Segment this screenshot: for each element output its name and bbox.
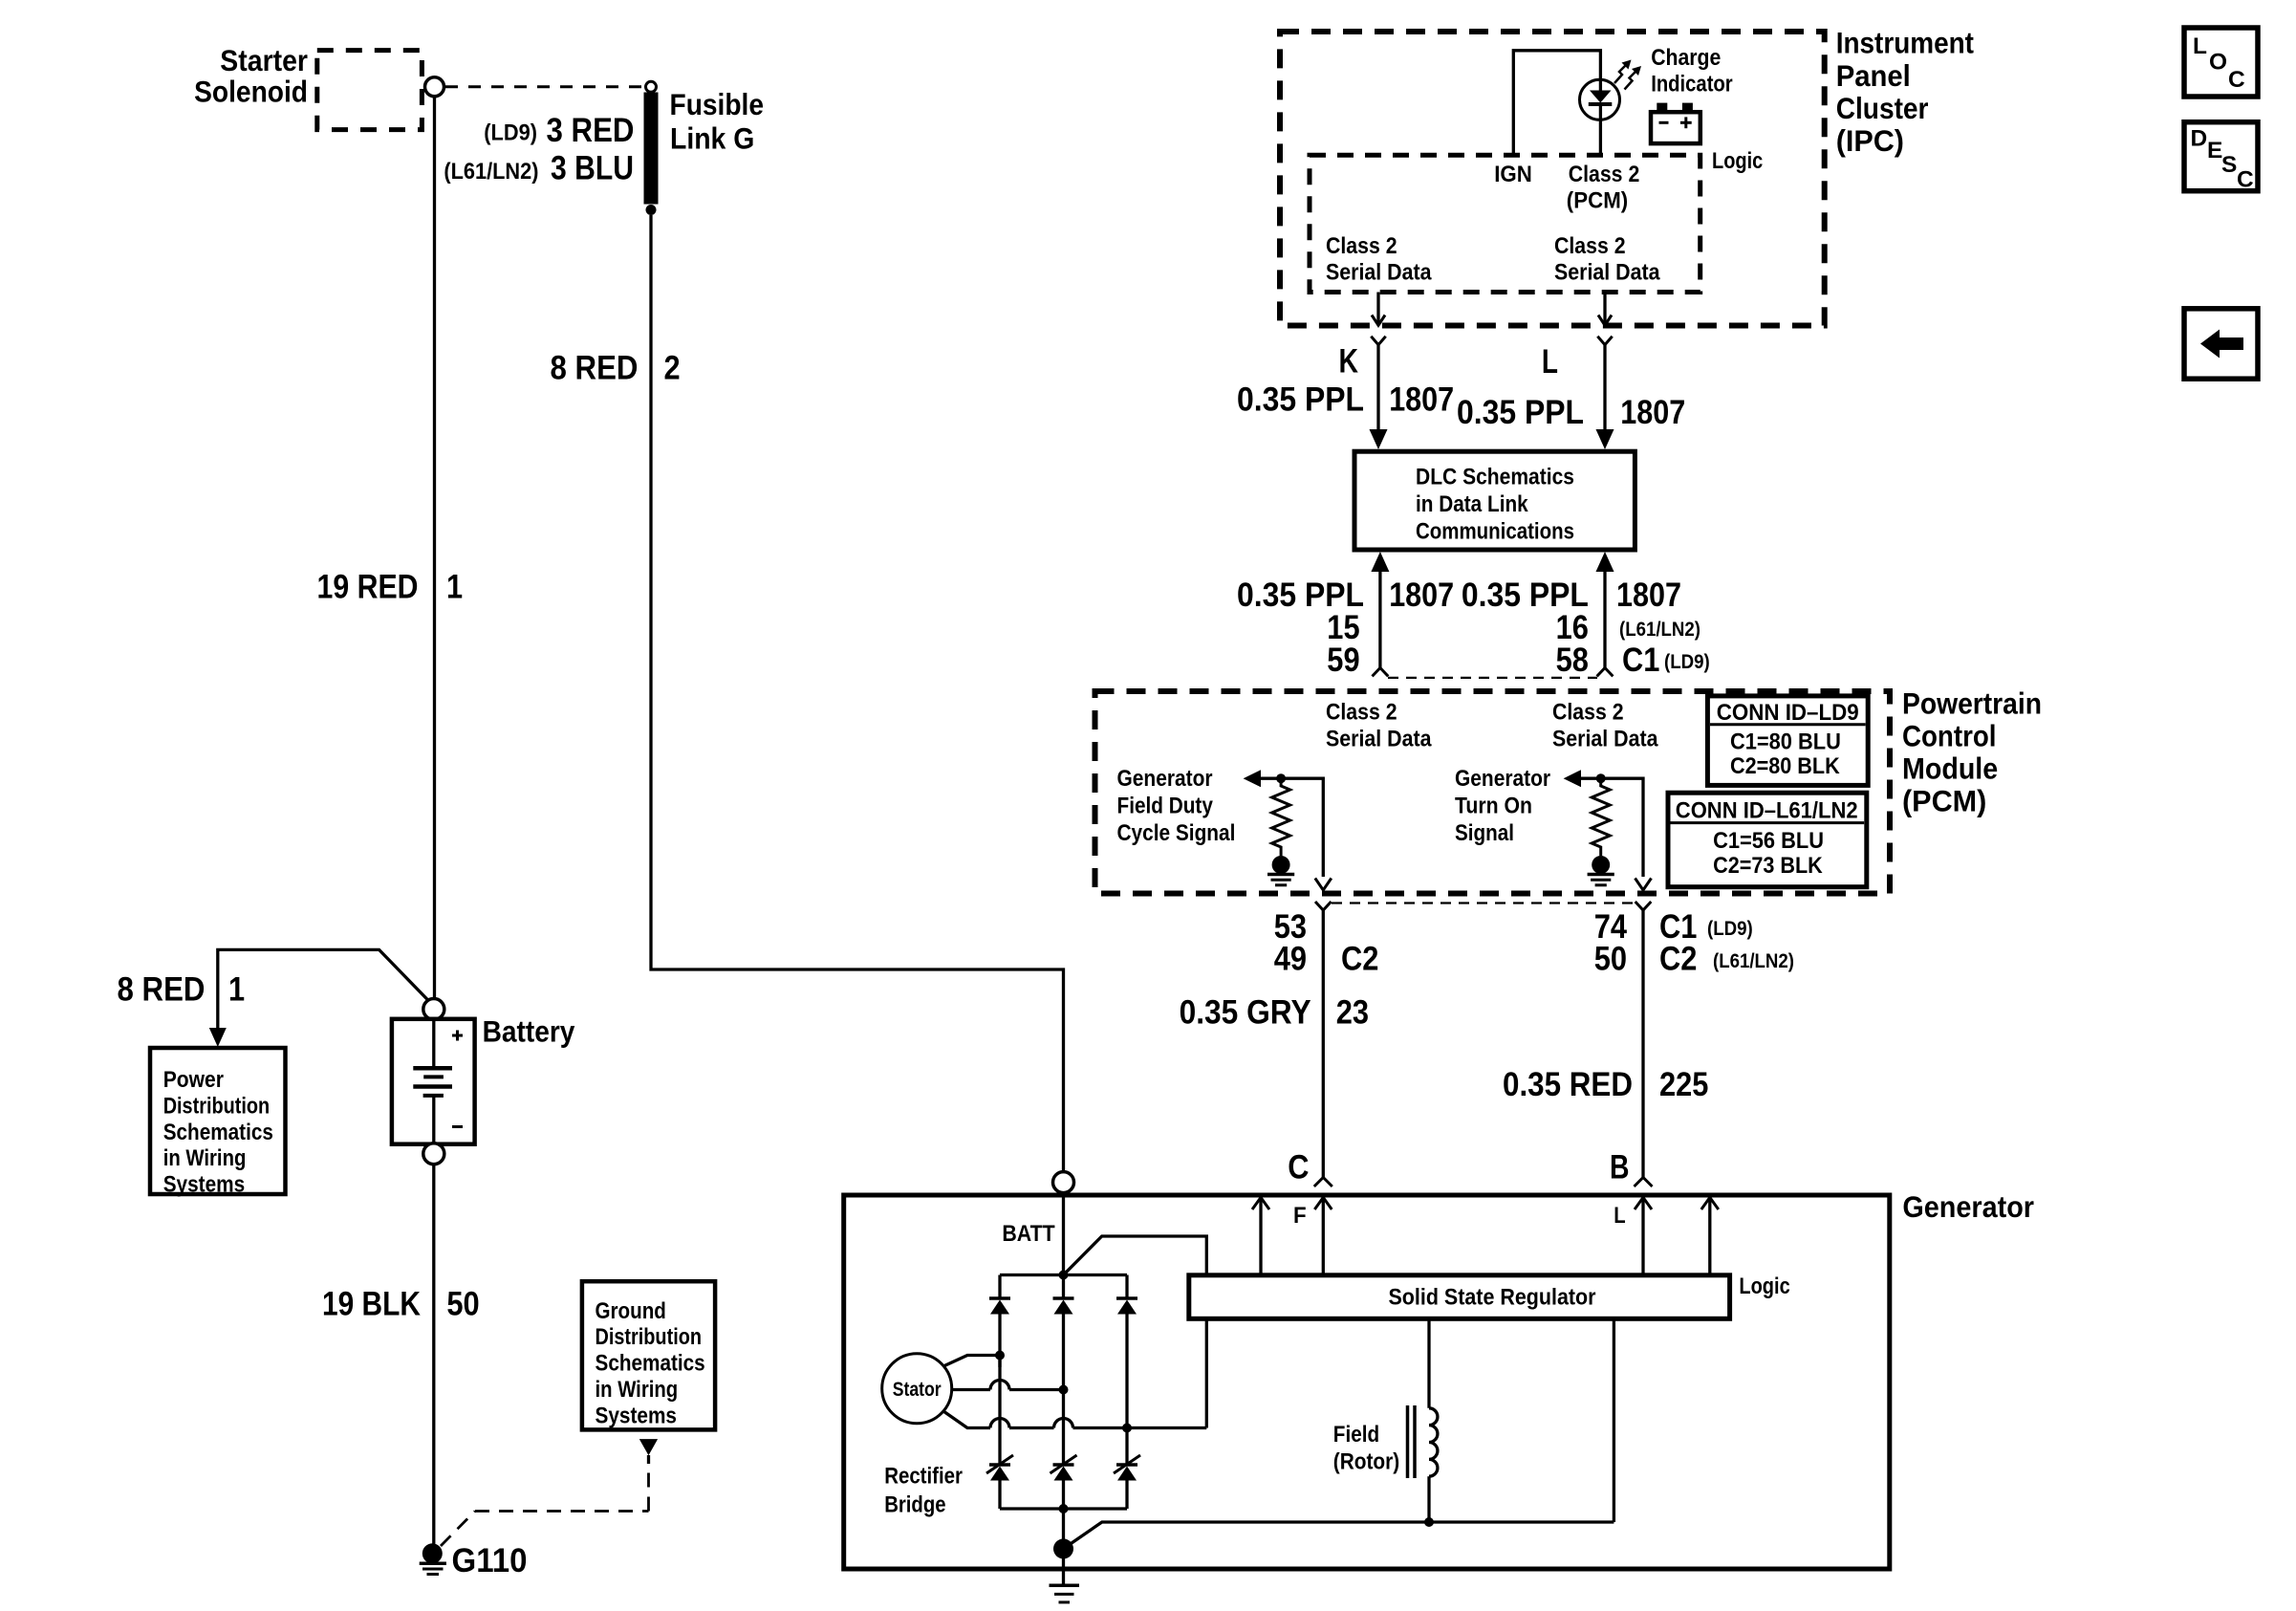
svg-text:Rectifier: Rectifier <box>884 1464 963 1490</box>
arrow regulator F terminal <box>1252 1198 1269 1275</box>
svg-text:3 BLU: 3 BLU <box>551 150 634 187</box>
svg-text:Logic: Logic <box>1739 1274 1789 1299</box>
svg-text:0.35 PPL: 0.35 PPL <box>1237 381 1364 419</box>
DLC schematics box <box>1354 451 1635 550</box>
wire serial data (PCM 15/59 to DLC) <box>1371 552 1389 676</box>
label 0.35 PPL 1807 (left lower) <box>1237 577 1454 614</box>
svg-text:50: 50 <box>446 1286 479 1323</box>
svg-text:Starter: Starter <box>220 43 308 77</box>
node bottom bus junction <box>1059 1504 1069 1513</box>
svg-text:Cycle Signal: Cycle Signal <box>1117 820 1236 846</box>
wire (dashed) G110 to ground distribution <box>441 1439 658 1546</box>
svg-text:8 RED: 8 RED <box>551 350 639 387</box>
svg-text:L: L <box>1542 343 1558 381</box>
svg-text:(L61/LN2): (L61/LN2) <box>444 159 538 185</box>
svg-text:(LD9): (LD9) <box>1664 651 1710 673</box>
wire bottom bus to generator ground <box>1062 1509 1065 1585</box>
svg-text:Class 2: Class 2 <box>1554 233 1626 259</box>
field rotor coil <box>1408 1318 1438 1527</box>
svg-text:(Rotor): (Rotor) <box>1333 1449 1399 1475</box>
wire branch 8 RED circuit 1 (to power distribution) <box>218 949 435 1029</box>
ground (turn on) <box>1588 856 1614 885</box>
wire stator phase 3 <box>943 1411 1206 1433</box>
svg-text:C2=73 BLK: C2=73 BLK <box>1713 853 1823 879</box>
svg-text:Class 2: Class 2 <box>1326 699 1397 725</box>
label Class 2 Serial Data (PCM left) <box>1326 699 1432 751</box>
diode (rectifier top 2) <box>1053 1275 1074 1465</box>
svg-text:Schematics: Schematics <box>163 1120 273 1145</box>
label Field (Rotor) <box>1333 1422 1399 1475</box>
svg-text:Systems: Systems <box>163 1172 246 1198</box>
svg-text:Serial Data: Serial Data <box>1554 260 1660 286</box>
svg-text:2: 2 <box>664 350 681 387</box>
svg-text:B: B <box>1610 1149 1630 1186</box>
battery <box>392 999 575 1165</box>
wire ground to field return <box>1064 1522 1614 1549</box>
label (L61/LN2) 3 BLU <box>444 150 634 187</box>
fusible link G <box>644 81 765 215</box>
svg-text:IGN: IGN <box>1494 162 1532 187</box>
svg-text:Solenoid: Solenoid <box>194 75 308 109</box>
wire K serial data (IPC to DLC) <box>1370 293 1388 450</box>
svg-text:8 RED: 8 RED <box>118 971 206 1009</box>
svg-text:Signal: Signal <box>1455 820 1514 846</box>
svg-text:Stator: Stator <box>893 1379 942 1401</box>
wire regulator to field return <box>1613 1318 1615 1522</box>
svg-text:(PCM): (PCM) <box>1567 188 1628 214</box>
svg-text:Panel: Panel <box>1836 58 1911 93</box>
arrow regulator L terminal <box>1701 1198 1719 1275</box>
svg-text:Class 2: Class 2 <box>1326 233 1397 259</box>
svg-text:C2=80 BLK: C2=80 BLK <box>1730 753 1840 779</box>
DESC box <box>2184 122 2258 193</box>
svg-text:F: F <box>1293 1203 1307 1229</box>
svg-text:Generator: Generator <box>1455 766 1550 792</box>
svg-text:1807: 1807 <box>1620 394 1685 431</box>
svg-text:225: 225 <box>1659 1066 1708 1103</box>
svg-text:E: E <box>2207 138 2222 163</box>
wire 19 RED circuit 1 (solenoid to battery) <box>433 97 436 999</box>
wire IGN <box>1513 51 1600 154</box>
svg-text:C: C <box>2228 67 2245 93</box>
label Charge Indicator <box>1651 45 1733 98</box>
label pins 15 / 16 (L61/LN2) <box>1327 609 1700 646</box>
svg-text:G110: G110 <box>452 1542 528 1579</box>
solid state regulator box <box>1189 1275 1730 1319</box>
svg-text:Distribution: Distribution <box>163 1093 271 1119</box>
label Generator Turn On Signal <box>1455 766 1550 846</box>
node BATT junction <box>1059 1271 1069 1280</box>
wire stator phase 2 <box>952 1381 1069 1395</box>
CONN ID-LD9 box <box>1707 696 1868 786</box>
wire serial data (PCM 16/58 to DLC) <box>1596 552 1614 676</box>
svg-text:Communications: Communications <box>1416 519 1574 545</box>
rectifier bridge bottom bus <box>1000 1507 1127 1510</box>
svg-text:Charge: Charge <box>1651 45 1721 71</box>
wire 8 RED circuit 2 (fusible link to generator BATT) <box>651 215 1064 1172</box>
instrument panel cluster (IPC) box <box>1280 26 1974 326</box>
svg-text:Ground: Ground <box>596 1298 666 1324</box>
powertrain control module (PCM) box <box>1095 686 2043 894</box>
CONN ID-L61/LN2 box <box>1668 793 1867 887</box>
label Generator Field Duty Cycle Signal <box>1117 766 1236 846</box>
ground (generator case) <box>1050 1585 1080 1602</box>
label Class 2 Serial Data (PCM right) <box>1552 699 1658 751</box>
svg-text:Control: Control <box>1902 719 1997 753</box>
label Class 2 Serial Data (IPC left) <box>1326 233 1432 286</box>
resistor (turn on pull-up) <box>1592 773 1610 856</box>
svg-text:(IPC): (IPC) <box>1836 123 1904 158</box>
node: generator BATT terminal <box>1053 1172 1074 1193</box>
svg-text:1807: 1807 <box>1389 381 1454 419</box>
svg-text:3 RED: 3 RED <box>547 112 635 149</box>
label pins 53 / 74 C1 (LD9) <box>1274 908 1753 946</box>
svg-text:59: 59 <box>1327 642 1359 679</box>
svg-text:1: 1 <box>228 971 245 1009</box>
indicator light rays <box>1614 60 1641 90</box>
diode (rectifier top 3) <box>1116 1275 1137 1465</box>
svg-text:Field: Field <box>1333 1422 1379 1448</box>
svg-text:Link G: Link G <box>670 121 754 156</box>
svg-text:C2: C2 <box>1341 941 1378 978</box>
wire (dashed) solenoid to fusible link <box>445 85 641 88</box>
svg-text:K: K <box>1339 343 1359 381</box>
svg-text:Battery: Battery <box>483 1014 575 1049</box>
svg-text:(L61/LN2): (L61/LN2) <box>1713 950 1794 972</box>
svg-text:Serial Data: Serial Data <box>1326 260 1432 286</box>
svg-text:CONN ID–L61/LN2: CONN ID–L61/LN2 <box>1676 798 1858 824</box>
wire generator field duty cycle signal (PCM internal) <box>1244 770 1332 890</box>
svg-text:Power: Power <box>163 1067 225 1093</box>
wire L serial data (IPC to DLC) <box>1596 293 1614 450</box>
svg-text:Module: Module <box>1902 751 1998 786</box>
wire BATT node loop <box>1064 1236 1207 1428</box>
IPC battery telltale icon <box>1651 103 1700 144</box>
diode avalanche (rectifier bottom 3) <box>1114 1455 1140 1509</box>
label 0.35 RED 225 <box>1503 1066 1708 1103</box>
svg-text:Logic: Logic <box>1712 148 1763 174</box>
svg-text:C: C <box>1288 1149 1309 1186</box>
node: starter solenoid terminal <box>425 77 444 97</box>
label 8 RED 2 <box>551 350 681 387</box>
label (LD9) 3 RED <box>484 112 634 149</box>
svg-text:C: C <box>2237 167 2254 193</box>
svg-text:23: 23 <box>1336 994 1369 1032</box>
wire 0.35 RED circuit 225 (PCM C1/C2 to generator L) <box>1635 902 1653 1186</box>
ground (field duty) <box>1267 856 1294 885</box>
label 0.35 PPL 1807 (L) <box>1457 394 1685 431</box>
svg-text:Class 2: Class 2 <box>1569 162 1640 187</box>
svg-text:19 BLK: 19 BLK <box>322 1286 421 1323</box>
svg-text:Serial Data: Serial Data <box>1552 727 1658 752</box>
svg-text:O: O <box>2209 50 2227 76</box>
svg-text:0.35 PPL: 0.35 PPL <box>1457 394 1584 431</box>
svg-text:49: 49 <box>1274 941 1307 978</box>
stator <box>882 1354 952 1424</box>
wire 0.35 GRY circuit 23 (PCM C2 to generator F) <box>1314 902 1332 1186</box>
svg-text:(L61/LN2): (L61/LN2) <box>1619 619 1700 641</box>
LOC box <box>2184 28 2258 97</box>
svg-text:C2: C2 <box>1659 941 1697 978</box>
diode (rectifier top 1) <box>989 1275 1010 1465</box>
svg-text:C1: C1 <box>1622 642 1659 679</box>
svg-text:0.35 GRY: 0.35 GRY <box>1180 994 1311 1032</box>
rectifier bridge top bus <box>1000 1274 1127 1276</box>
node generator ground <box>1053 1538 1073 1558</box>
svg-text:in Wiring: in Wiring <box>163 1145 247 1171</box>
arrow regulator F input <box>1314 1198 1332 1275</box>
svg-text:58: 58 <box>1556 642 1589 679</box>
connector line (dashed) PCM top <box>1388 677 1597 679</box>
label 0.35 PPL 1807 (K) <box>1237 381 1454 419</box>
svg-text:BATT: BATT <box>1002 1221 1054 1247</box>
wire BATT terminal to rectifier bus <box>1062 1193 1065 1275</box>
svg-text:Systems: Systems <box>596 1403 678 1428</box>
svg-text:1807: 1807 <box>1389 577 1454 614</box>
svg-text:Generator: Generator <box>1117 766 1213 792</box>
svg-text:in Data Link: in Data Link <box>1416 491 1528 517</box>
starter solenoid <box>194 43 422 130</box>
label Class 2 Serial Data (IPC right) <box>1554 233 1660 286</box>
svg-text:50: 50 <box>1594 941 1627 978</box>
svg-text:CONN ID–LD9: CONN ID–LD9 <box>1717 700 1859 726</box>
svg-text:Instrument: Instrument <box>1836 26 1975 60</box>
arrow regulator L input <box>1635 1198 1652 1275</box>
label 19 BLK 50 <box>322 1286 480 1323</box>
svg-text:(PCM): (PCM) <box>1902 784 1986 818</box>
svg-text:L: L <box>2193 33 2207 59</box>
back arrow box <box>2184 309 2258 379</box>
diode avalanche (rectifier bottom 1) <box>986 1455 1013 1509</box>
svg-text:Fusible: Fusible <box>670 87 765 121</box>
svg-text:1: 1 <box>446 569 463 606</box>
svg-text:0.35 RED: 0.35 RED <box>1503 1066 1633 1103</box>
svg-text:Bridge: Bridge <box>884 1492 945 1518</box>
svg-text:C1=80 BLU: C1=80 BLU <box>1730 729 1841 755</box>
label Class 2 (PCM) <box>1567 162 1639 214</box>
svg-text:D: D <box>2191 125 2208 151</box>
power distribution schematics box <box>150 1048 286 1198</box>
resistor (field duty pull-up) <box>1272 773 1290 856</box>
label 0.35 GRY 23 <box>1180 994 1369 1032</box>
wire generator turn on signal (PCM internal) <box>1564 770 1652 890</box>
label pins 49 C2 / 50 C2 (L61/LN2) <box>1274 941 1794 978</box>
svg-text:Cluster: Cluster <box>1836 91 1929 125</box>
svg-text:Class 2: Class 2 <box>1552 699 1624 725</box>
svg-text:L: L <box>1614 1203 1625 1229</box>
svg-text:C1=56 BLU: C1=56 BLU <box>1713 828 1824 854</box>
svg-text:Powertrain: Powertrain <box>1902 686 2042 721</box>
svg-text:DLC Schematics: DLC Schematics <box>1416 465 1574 490</box>
label pins 59 / 58 C1 (LD9) <box>1327 642 1710 679</box>
wire 19 BLK circuit 50 (battery to G110) <box>432 1165 435 1545</box>
svg-text:Field Duty: Field Duty <box>1117 794 1214 819</box>
svg-text:(LD9): (LD9) <box>484 120 537 146</box>
generator box <box>844 1195 1890 1569</box>
svg-text:1807: 1807 <box>1616 577 1681 614</box>
diode avalanche (rectifier bottom 2) <box>1051 1455 1077 1509</box>
svg-text:Serial Data: Serial Data <box>1326 727 1432 752</box>
svg-text:in Wiring: in Wiring <box>596 1377 679 1403</box>
svg-text:Solid State Regulator: Solid State Regulator <box>1389 1285 1596 1311</box>
svg-text:S: S <box>2221 152 2237 178</box>
wire stator phase 1 <box>943 1351 1005 1368</box>
charge indicator LED <box>1580 79 1620 154</box>
IPC logic box <box>1310 155 1700 292</box>
ground distribution schematics box <box>582 1281 715 1429</box>
svg-text:19 RED: 19 RED <box>317 569 419 606</box>
svg-text:(LD9): (LD9) <box>1707 918 1753 940</box>
svg-text:Generator: Generator <box>1902 1189 2034 1224</box>
label Rectifier Bridge <box>884 1464 963 1518</box>
connector line (dashed) PCM bottom <box>1332 902 1635 903</box>
label 0.35 PPL 1807 (right lower) <box>1462 577 1681 614</box>
svg-text:Distribution: Distribution <box>596 1324 703 1350</box>
svg-text:Indicator: Indicator <box>1651 72 1733 98</box>
ground G110 <box>420 1542 528 1579</box>
label 8 RED 1 <box>118 971 246 1009</box>
svg-text:Turn On: Turn On <box>1455 794 1532 819</box>
svg-text:Schematics: Schematics <box>596 1351 705 1377</box>
label 19 RED 1 <box>317 569 464 606</box>
